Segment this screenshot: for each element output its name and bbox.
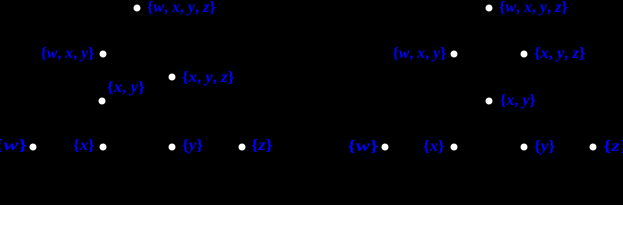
left diagram: node {y} <box>169 143 176 150</box>
left diagram: node {x,y} <box>99 98 106 105</box>
left diagram: node {w,x,y,z} <box>134 4 141 11</box>
right diagram: node {x,y,z} <box>521 50 528 57</box>
left diagram: node {z} <box>239 143 246 150</box>
left diagram: node {x,y,z} <box>169 74 176 81</box>
left diagram: node {x} <box>100 143 107 150</box>
right diagram: node {y} <box>521 144 528 151</box>
right diagram: node {x} <box>451 144 458 151</box>
right diagram: node {w} <box>382 144 389 151</box>
right diagram: node {w,x,y} <box>451 50 458 57</box>
left diagram: node {w} <box>30 143 37 150</box>
right diagram: node {w,x,y,z} <box>486 4 493 11</box>
right diagram: node {z} <box>590 144 597 151</box>
right diagram: node {x,y} <box>486 98 493 105</box>
left diagram: node {w,x,y} <box>100 50 107 57</box>
